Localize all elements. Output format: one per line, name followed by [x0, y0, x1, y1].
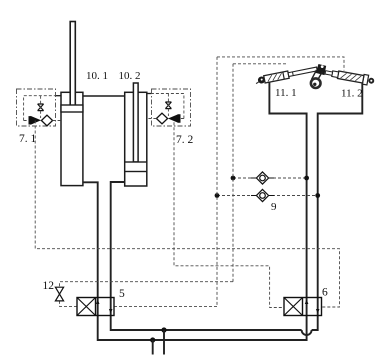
box 7.2 outer chain-line enclosure [152, 89, 191, 126]
box 7.1 outer chain-line enclosure [17, 89, 56, 126]
cylinder 10.1 rod [70, 22, 75, 106]
cylinder 10.1 piston [61, 105, 83, 112]
wire cylinder 10.2 to box 7.2 [147, 93, 152, 95]
pilot dashed x233 to shutoff valve 12 [60, 282, 234, 288]
throttle bowtie in 7.2 [165, 102, 171, 109]
svg-text:11. 1: 11. 1 [275, 87, 297, 99]
pilot dashed from 7.1 to valve 6 right [35, 121, 339, 308]
svg-text:10. 2: 10. 2 [119, 70, 141, 82]
pilot dashed top run to 11.2 [217, 57, 344, 71]
pilot dashed vertical x233 [232, 64, 234, 282]
pilot dashed shutoff 12 to valve 5 left [60, 301, 78, 307]
svg-text:7. 2: 7. 2 [176, 134, 194, 146]
node dots line 1 [231, 176, 236, 181]
wire component line 7.2 to cylinder [147, 118, 157, 120]
valve 5 crossed (blocked) position [77, 298, 96, 316]
pilot dashed vertical x217 [216, 57, 218, 307]
valve 5 (2-position) body [77, 298, 114, 316]
pilot dashed drop in 7.2 [167, 94, 169, 117]
actuator 11.1 (angled cylinder) [255, 65, 318, 85]
actuator 11.2 (angled cylinder) [324, 68, 374, 86]
pilot dashed x217 to valve 5 right [114, 306, 217, 308]
svg-text:12: 12 [43, 280, 55, 292]
check valve (pilot) in 7.1 [29, 117, 40, 125]
check valve (pilot) in 7.2 [169, 115, 180, 123]
pipe from cylinder 10.2 bottom with crossover hop [111, 79, 363, 336]
shutoff valve 12 [55, 287, 63, 301]
cylinder 10.1 body [61, 92, 83, 185]
check valve 9a on pilot line 1 [233, 177, 307, 179]
pilot dashed inner run to 11.1 [233, 63, 286, 65]
cylinder 10.2 body [125, 92, 147, 186]
node / stub on lower bottom line [150, 337, 155, 342]
box 7.1 inner dashed frame [24, 96, 56, 121]
svg-text:6: 6 [322, 287, 328, 299]
svg-text:5: 5 [119, 288, 125, 300]
cylinder 10.2 rod [133, 83, 138, 162]
pipe from cylinder 10.1 bottom to node at valve 6 riser [83, 82, 307, 340]
wire component line 7.1 to cylinder [53, 120, 61, 122]
valve 6 flow arrows [305, 300, 309, 305]
throttle bowtie in 7.1 [38, 104, 44, 111]
svg-text:11. 2: 11. 2 [341, 88, 363, 100]
wire cylinder 10.1 to box 7.1 [56, 95, 62, 97]
check valve 9b on pilot line 2 [217, 195, 318, 197]
wire rod-side link between cylinders [83, 95, 125, 97]
diamond (logic valve) in 7.2 [156, 113, 167, 124]
diamond (logic valve) in 7.1 [41, 115, 52, 126]
svg-text:9: 9 [271, 201, 277, 213]
pilot dashed from 7.2 to valve 6 left [174, 122, 284, 307]
pilot dashed drop in 7.1 [40, 96, 42, 118]
center pivot joint of 11.1/11.2 [311, 65, 326, 88]
svg-text:10. 1: 10. 1 [86, 70, 108, 82]
svg-text:7. 1: 7. 1 [19, 133, 37, 145]
node / stub on upper bottom line [161, 327, 166, 332]
cylinder 10.2 piston [125, 162, 147, 172]
valve 6 crossed (blocked) position [284, 298, 303, 316]
box 7.2 inner dashed frame [152, 94, 184, 119]
valve 5 flow arrows [96, 300, 100, 305]
node dots line 2 [215, 193, 220, 198]
valve 6 (2-position) body [284, 298, 322, 316]
